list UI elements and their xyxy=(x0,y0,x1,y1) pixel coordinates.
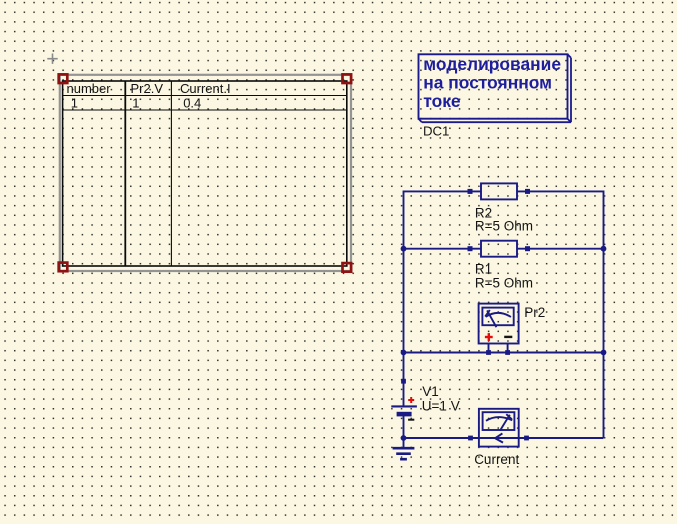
ammeter Current body xyxy=(479,409,519,447)
tabular diagram black border xyxy=(63,81,347,266)
svg-text:Current: Current xyxy=(474,452,519,467)
pin 1 of voltmeter xyxy=(486,350,491,355)
svg-text:V1: V1 xyxy=(422,384,439,399)
table column separator 1 xyxy=(124,81,126,266)
pin 2 of R2 xyxy=(525,189,530,194)
battery V1 positive plate xyxy=(391,405,417,407)
svg-text:0.4: 0.4 xyxy=(183,96,201,111)
junction node right-middle xyxy=(601,246,607,252)
table column separator 2 xyxy=(170,81,172,266)
svg-text:токе: токе xyxy=(423,91,461,111)
svg-text:Current.I: Current.I xyxy=(180,81,231,96)
wire right vertical xyxy=(603,191,605,439)
svg-text:моделирование: моделирование xyxy=(423,54,561,74)
svg-text:1: 1 xyxy=(132,96,139,111)
wire middle-right horizontal xyxy=(517,248,604,250)
svg-text:Pr2: Pr2 xyxy=(524,305,545,320)
dc simulation box DC1 frame xyxy=(419,54,568,118)
selection handle top-right xyxy=(343,74,352,83)
pin 1 of R2 xyxy=(468,189,473,194)
svg-text:Pr2.V: Pr2.V xyxy=(131,81,164,96)
junction node left-middle xyxy=(401,246,407,252)
svg-text:R=5 Ohm: R=5 Ohm xyxy=(475,275,533,290)
dc simulation box DC1 shadow xyxy=(419,54,572,122)
pin 1 of ammeter xyxy=(468,436,473,441)
svg-text:1: 1 xyxy=(71,96,78,111)
pin 2 of R1 xyxy=(525,246,530,251)
pin 2 of voltmeter xyxy=(505,350,510,355)
wire voltmeter horizontal xyxy=(404,352,604,354)
wire battery to ground vertical xyxy=(403,415,405,448)
wire top-right horizontal xyxy=(517,190,604,192)
wire bottom horizontal xyxy=(404,437,604,439)
pin square battery top xyxy=(401,379,406,384)
selection handle top-left xyxy=(59,74,68,83)
table row underline xyxy=(63,109,347,111)
svg-text:DC1: DC1 xyxy=(423,123,449,138)
origin cross marker xyxy=(47,54,57,64)
selection handle bottom-right xyxy=(343,263,352,272)
resistor R1 body xyxy=(481,241,517,257)
voltmeter plus sign xyxy=(485,333,493,341)
svg-text:R=5 Ohm: R=5 Ohm xyxy=(475,219,533,234)
svg-text:на постоянном: на постоянном xyxy=(423,73,552,93)
wire top-left horizontal xyxy=(404,190,482,192)
wire left vertical xyxy=(403,191,405,406)
junction node right-voltmeter xyxy=(601,350,607,356)
battery plus sign xyxy=(408,397,414,403)
junction node left-voltmeter xyxy=(401,350,407,356)
pin 2 of ammeter xyxy=(524,436,529,441)
ground symbol xyxy=(393,448,415,459)
table header underline xyxy=(63,95,347,97)
junction node battery-bottom xyxy=(401,435,407,441)
wire middle-left horizontal xyxy=(404,248,482,250)
resistor R2 body xyxy=(481,183,517,199)
battery minus sign xyxy=(408,419,414,421)
voltmeter minus sign xyxy=(504,336,512,338)
battery V1 negative plate xyxy=(397,412,412,417)
svg-text:number: number xyxy=(67,81,112,96)
selection handle bottom-left xyxy=(59,263,68,272)
pin 1 of R1 xyxy=(468,246,473,251)
svg-text:U=1 V: U=1 V xyxy=(422,399,460,414)
voltmeter Pr2 body xyxy=(479,304,519,353)
ammeter arrow xyxy=(495,433,503,442)
tabular diagram gray frame xyxy=(60,75,351,271)
